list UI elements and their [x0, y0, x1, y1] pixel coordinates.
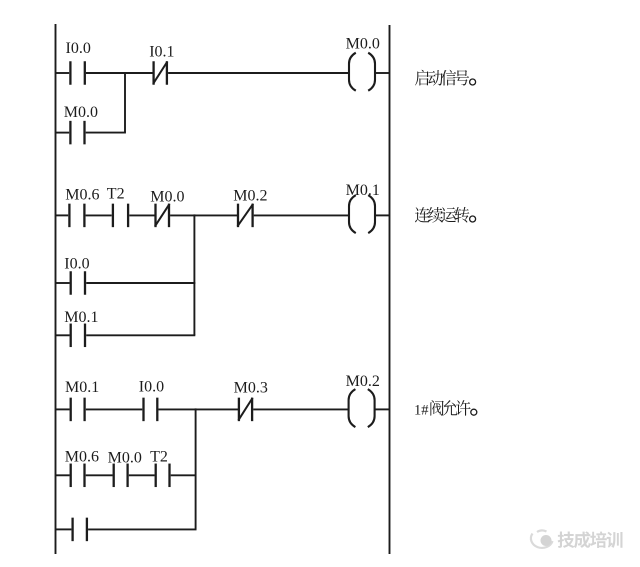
contact M0.0 (NC) — [155, 204, 170, 228]
contact I0.1 (NC) — [153, 61, 167, 85]
svg-text:M0.6: M0.6 — [65, 186, 99, 203]
wire M0.2 to coil M0.1 — [254, 214, 349, 216]
wire coil M0.0 to right rail — [376, 72, 390, 74]
label M0.0 branch — [64, 104, 98, 121]
coil M0.2 — [349, 389, 375, 427]
contact unnamed (NO) bottom branch — [73, 518, 87, 542]
contact T2 (NO) — [113, 204, 128, 228]
label I0.0 rung3 — [139, 378, 164, 395]
svg-text:M0.2: M0.2 — [233, 187, 267, 204]
wire I0.0 to M0.3 — [159, 408, 239, 410]
wire I0.0 to branch node rung2 — [86, 282, 195, 284]
node branch rung2 — [193, 214, 195, 335]
svg-text:I0.1: I0.1 — [149, 44, 174, 61]
wire M0.6 to M0.0 rung3 branch — [86, 474, 113, 476]
svg-text:T2: T2 — [150, 448, 168, 465]
contact I0.0 (NO) rung2 parallel — [71, 271, 85, 295]
wire branch rail to M0.1 rung2 — [56, 334, 70, 336]
label I0.0 — [66, 40, 91, 57]
svg-text:I0.0: I0.0 — [64, 256, 89, 273]
wire rung3 rail to M0.1 — [56, 408, 70, 410]
wire M0.1 to I0.0 rung3 — [86, 408, 143, 410]
svg-text:M0.6: M0.6 — [65, 448, 99, 465]
coil M0.1 — [349, 195, 375, 233]
wire T2 to branch node rung3 — [171, 474, 197, 476]
contact I0.0 (NO) — [70, 61, 84, 85]
contact M0.1 (NO) rung3 — [71, 398, 85, 422]
label I0.0 rung2 branch — [64, 256, 89, 273]
wire M0.0 to T2 rung3 branch — [129, 474, 155, 476]
svg-text:M0.0: M0.0 — [64, 104, 98, 121]
svg-text:M0.1: M0.1 — [65, 379, 99, 396]
label M0.1 coil — [346, 182, 380, 199]
label M0.2 rung2 — [233, 187, 267, 204]
contact M0.0 (NO) parallel — [70, 121, 84, 145]
svg-text:M0.1: M0.1 — [346, 182, 380, 199]
right power rail — [389, 25, 391, 554]
wire M0.3 to coil M0.2 — [253, 408, 348, 410]
contact M0.2 (NC) — [238, 204, 254, 228]
label 1#阀允许。 — [414, 400, 477, 418]
wire M0.6 to T2 — [86, 214, 112, 216]
wire coil M0.2 to right rail — [375, 408, 389, 410]
label M0.6 rung3 branch — [65, 448, 99, 465]
svg-text:M0.1: M0.1 — [64, 309, 98, 326]
contact T2 (NO) rung3 branch — [156, 464, 170, 488]
wire bottom branch rail to contact — [56, 528, 72, 530]
wire rung2 rail to M0.6 — [56, 214, 69, 216]
label T2 rung2 — [107, 185, 125, 202]
svg-text:T2: T2 — [107, 185, 125, 202]
svg-text:1#: 1# — [414, 402, 429, 418]
label M0.3 rung3 — [234, 379, 268, 396]
label M0.1 rung3 — [65, 379, 99, 396]
label T2 rung3 branch — [150, 448, 168, 465]
label M0.2 coil — [346, 373, 380, 390]
wire M0.0 to branch node — [86, 132, 126, 134]
svg-text:M0.3: M0.3 — [234, 379, 268, 396]
label M0.0 rung2 — [150, 189, 184, 206]
svg-text:M0.0: M0.0 — [346, 35, 380, 52]
wire I0.0 to I0.1 — [86, 72, 153, 74]
contact M0.6 (NO) — [69, 204, 84, 228]
svg-text:M0.0: M0.0 — [150, 189, 184, 206]
wire coil M0.1 to right rail — [376, 214, 390, 216]
wire I0.1 to coil M0.0 — [168, 72, 348, 74]
contact M0.6 (NO) rung3 branch — [71, 464, 85, 488]
contact M0.0 (NO) rung3 branch — [114, 464, 128, 488]
label M0.0 rung3 branch — [108, 449, 142, 466]
svg-text:I0.0: I0.0 — [66, 40, 91, 57]
label M0.1 rung2 branch — [64, 309, 98, 326]
wire M0.0 to M0.2 — [170, 214, 237, 216]
wire T2 to M0.0 — [129, 214, 154, 216]
wire branch rail to I0.0 rung2 — [56, 282, 70, 284]
wire bottom contact to branch node — [88, 528, 196, 530]
wire branch rail to M0.0 — [56, 132, 70, 134]
label 连续运转。 — [415, 207, 476, 223]
contact I0.0 (NO) rung3 — [144, 398, 158, 422]
node branch rung3 — [195, 408, 197, 529]
label M0.6 rung2 — [65, 186, 99, 203]
coil M0.0 — [349, 53, 375, 91]
node branch rung1 — [124, 72, 126, 133]
watermark logo and text 技成培训 — [531, 530, 623, 548]
wire rung1 rail to I0.0 — [56, 72, 70, 74]
contact M0.3 (NC) — [238, 398, 252, 422]
svg-text:I0.0: I0.0 — [139, 378, 164, 395]
wire M0.1 to branch node rung2 — [86, 334, 195, 336]
label 启动信号。 — [415, 70, 476, 86]
label M0.0 coil — [346, 35, 380, 52]
svg-text:M0.0: M0.0 — [108, 449, 142, 466]
label I0.1 — [149, 44, 174, 61]
contact M0.1 (NO) rung2 parallel — [71, 324, 85, 348]
svg-text:M0.2: M0.2 — [346, 373, 380, 390]
left power rail — [55, 24, 57, 554]
wire branch rail to M0.6 rung3 — [56, 474, 70, 476]
